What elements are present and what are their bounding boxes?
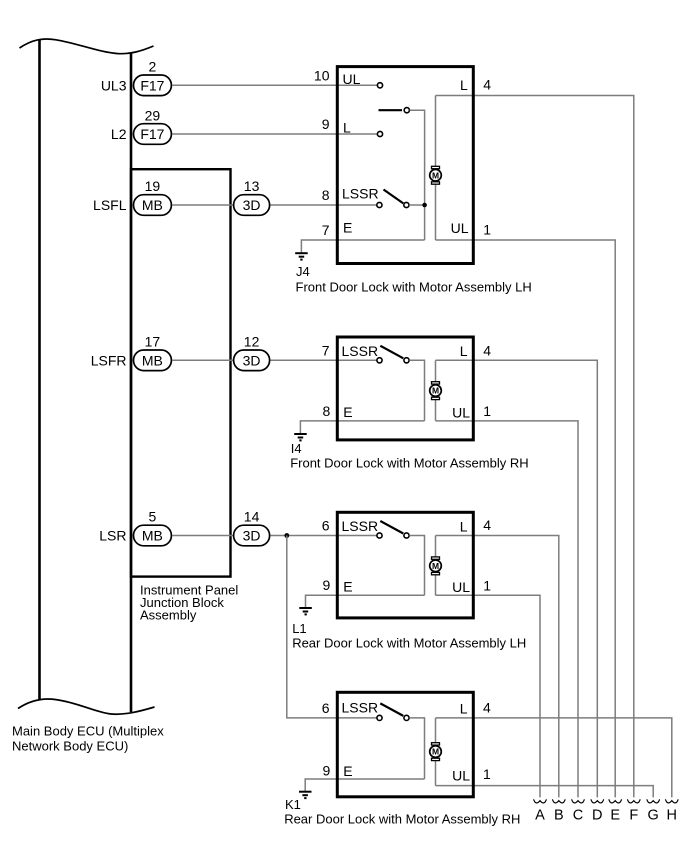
wire row2 <box>172 133 338 135</box>
svg-text:MB: MB <box>142 528 163 544</box>
J4 LSSR blade <box>384 190 404 204</box>
node junction dot LSR <box>284 533 289 538</box>
L1 ground symbol <box>299 608 312 614</box>
K1 motor branch vertical <box>435 718 437 786</box>
svg-text:D: D <box>592 807 602 823</box>
svg-text:UL: UL <box>452 579 470 595</box>
svg-text:M: M <box>432 561 439 571</box>
I4 ground symbol <box>294 434 307 440</box>
terminal A break <box>534 799 547 803</box>
svg-text:K1: K1 <box>285 797 301 812</box>
svg-text:M: M <box>432 170 439 180</box>
svg-text:UL: UL <box>451 220 469 236</box>
wire LSSR pivot to vertical <box>409 204 424 206</box>
I4 E wire <box>338 420 425 422</box>
svg-text:Rear Door Lock with Motor Asse: Rear Door Lock with Motor Assembly LH <box>292 635 526 650</box>
svg-text:E: E <box>343 763 352 779</box>
svg-text:L: L <box>460 77 468 93</box>
K1 L output wire to H <box>436 718 672 798</box>
svg-text:LSSR: LSSR <box>342 518 379 534</box>
J4 pin9 contact wire <box>338 133 377 135</box>
svg-text:6: 6 <box>322 517 330 533</box>
svg-text:9: 9 <box>323 577 331 593</box>
svg-text:Front Door Lock with Motor Ass: Front Door Lock with Motor Assembly RH <box>290 456 528 471</box>
svg-text:19: 19 <box>145 178 161 194</box>
svg-text:9: 9 <box>323 763 331 779</box>
K1 wire pivot to E <box>409 718 424 779</box>
svg-text:UL: UL <box>343 71 361 87</box>
svg-text:L: L <box>460 343 468 359</box>
junction dot on vertical <box>422 203 427 208</box>
svg-text:UL: UL <box>452 405 470 421</box>
I4 LSSR contact circle <box>377 358 382 363</box>
motor M4 (K1) <box>430 743 442 761</box>
svg-text:L2: L2 <box>111 126 127 142</box>
L1 LSSR pivot circle <box>404 533 409 538</box>
svg-text:10: 10 <box>314 67 330 83</box>
svg-text:J4: J4 <box>296 264 310 279</box>
svg-text:LSFR: LSFR <box>91 352 127 368</box>
connector MB (pin 19) <box>134 195 172 216</box>
motor M1 (J4) <box>430 166 442 184</box>
svg-text:LSSR: LSSR <box>342 343 379 359</box>
K1 ground wire <box>305 779 338 791</box>
J4 UL contact circle <box>377 83 382 88</box>
J4 ground symbol <box>295 253 308 259</box>
wire pivot to vertical <box>410 110 425 240</box>
svg-text:I4: I4 <box>291 441 302 456</box>
J4 pin10 contact wire <box>338 84 377 86</box>
terminal H break <box>665 799 678 803</box>
wire row3 MB to 3D <box>172 204 233 206</box>
svg-text:12: 12 <box>244 333 260 349</box>
svg-text:29: 29 <box>145 107 161 123</box>
svg-text:E: E <box>343 220 352 236</box>
I4 LSSR pivot circle <box>404 358 409 363</box>
svg-text:5: 5 <box>149 509 157 525</box>
J4 LSSR pivot circle <box>404 202 409 207</box>
svg-text:Main Body ECU (Multiplex: Main Body ECU (Multiplex <box>12 723 164 738</box>
L1 motor branch vertical <box>435 536 437 596</box>
svg-text:F17: F17 <box>140 126 164 142</box>
terminal F break <box>627 799 640 803</box>
wire row3 3D to J4 <box>271 204 339 206</box>
L1 ground wire <box>306 595 339 607</box>
svg-text:7: 7 <box>322 222 330 238</box>
svg-text:H: H <box>667 807 677 823</box>
wire junction down to K1 <box>287 536 377 718</box>
K1 UL output wire to G <box>436 786 654 798</box>
junction block box <box>131 169 231 576</box>
K1 LSSR pivot circle <box>404 715 409 720</box>
wire row1 <box>172 84 338 86</box>
svg-text:LSFL: LSFL <box>93 197 127 213</box>
svg-text:M: M <box>432 747 439 757</box>
svg-text:Network Body ECU): Network Body ECU) <box>12 738 128 753</box>
wire row5 3D to L1 <box>271 535 377 537</box>
svg-text:G: G <box>648 807 659 823</box>
svg-text:L: L <box>460 518 468 534</box>
motor M3 (L1) <box>430 557 442 575</box>
J4 box outline <box>337 67 473 264</box>
svg-text:E: E <box>343 579 352 595</box>
svg-text:3D: 3D <box>243 197 261 213</box>
J4 UL output wire to E <box>436 240 616 797</box>
svg-text:A: A <box>535 807 545 823</box>
connector 3D (pin 14) <box>234 525 270 546</box>
svg-text:14: 14 <box>244 509 260 525</box>
connector F17 (pin 2) <box>134 75 172 96</box>
wire row4 MB to 3D <box>172 359 233 361</box>
svg-text:1: 1 <box>483 577 491 593</box>
L1 wire pivot to E <box>409 536 424 596</box>
wire row5 MB to 3D <box>172 535 233 537</box>
svg-text:17: 17 <box>145 333 161 349</box>
svg-text:9: 9 <box>322 116 330 132</box>
svg-text:L: L <box>343 120 351 136</box>
svg-text:4: 4 <box>483 77 491 93</box>
J4 L contact circle <box>377 131 382 136</box>
I4 wire pivot to E <box>409 360 424 421</box>
terminal C break <box>572 799 585 803</box>
svg-text:8: 8 <box>323 403 331 419</box>
svg-text:4: 4 <box>483 517 491 533</box>
svg-text:6: 6 <box>322 700 330 716</box>
L1 UL output wire to A <box>436 595 541 797</box>
svg-text:13: 13 <box>244 178 260 194</box>
J4 switch pivot circle <box>404 108 409 113</box>
svg-text:1: 1 <box>483 403 491 419</box>
connector F17 (pin 29) <box>134 124 172 145</box>
J4 L output wire to F <box>436 96 634 798</box>
L1 LSSR blade <box>380 521 403 534</box>
L1 LSSR contact circle <box>377 533 382 538</box>
svg-text:F17: F17 <box>140 77 164 93</box>
svg-text:C: C <box>573 807 583 823</box>
I4 ground wire <box>300 421 338 433</box>
L1 box outline <box>337 512 473 618</box>
I4 box outline <box>337 337 473 440</box>
ECU right vertical line <box>130 54 133 713</box>
ECU top break squiggle <box>20 39 154 54</box>
terminal G break <box>647 799 660 803</box>
ECU left vertical line <box>38 40 41 700</box>
motor M2 (I4) <box>430 382 442 400</box>
L1 E wire <box>338 594 425 596</box>
connector 3D (pin 12) <box>234 350 270 371</box>
svg-text:UL: UL <box>452 767 470 783</box>
I4 LSSR blade <box>380 346 403 359</box>
svg-text:2: 2 <box>149 58 157 74</box>
J4 motor branch vertical <box>435 96 437 241</box>
svg-text:MB: MB <box>142 352 163 368</box>
svg-text:L: L <box>460 701 468 717</box>
K1 box outline <box>337 692 473 797</box>
svg-text:Rear Door Lock with Motor Asse: Rear Door Lock with Motor Assembly RH <box>284 811 520 826</box>
svg-text:3D: 3D <box>243 352 261 368</box>
svg-text:4: 4 <box>483 700 491 716</box>
wire row4 3D to I4 <box>271 359 339 361</box>
terminal D break <box>591 799 604 803</box>
I4 L output wire to D <box>436 360 598 797</box>
J4 door-lock switch blade (neutral) <box>379 109 403 111</box>
ECU bottom break squiggle <box>18 699 155 714</box>
svg-text:M: M <box>432 386 439 396</box>
I4 UL output wire to C <box>436 421 579 798</box>
svg-text:7: 7 <box>322 342 330 358</box>
J4 E wire <box>338 239 425 241</box>
svg-text:LSSR: LSSR <box>342 186 379 202</box>
svg-text:E: E <box>610 807 620 823</box>
connector MB (pin 17) <box>134 350 172 371</box>
J4 ground wire <box>301 240 338 252</box>
svg-text:4: 4 <box>483 342 491 358</box>
connector 3D (pin 13) <box>234 195 270 216</box>
L1 L output wire to B <box>436 536 559 798</box>
svg-text:F: F <box>629 807 638 823</box>
svg-text:8: 8 <box>322 187 330 203</box>
svg-text:UL3: UL3 <box>101 77 127 93</box>
K1 LSSR blade <box>380 703 403 716</box>
I4 pin7 wire inside <box>338 359 377 361</box>
K1 ground symbol <box>299 792 312 798</box>
terminal E break <box>609 799 622 803</box>
svg-text:Assembly: Assembly <box>140 607 197 622</box>
terminal B break <box>552 799 565 803</box>
svg-text:Front Door Lock with Motor Ass: Front Door Lock with Motor Assembly LH <box>296 279 532 294</box>
svg-text:MB: MB <box>142 197 163 213</box>
svg-text:3D: 3D <box>243 528 261 544</box>
svg-text:B: B <box>554 807 564 823</box>
svg-text:L1: L1 <box>292 621 306 636</box>
I4 motor branch vertical <box>435 360 437 421</box>
svg-text:1: 1 <box>483 766 491 782</box>
svg-text:LSR: LSR <box>99 528 126 544</box>
svg-text:1: 1 <box>483 222 491 238</box>
J4 LSSR contact circle <box>377 202 382 207</box>
K1 LSSR contact circle <box>377 715 382 720</box>
svg-text:LSSR: LSSR <box>342 699 379 715</box>
svg-text:E: E <box>343 404 352 420</box>
connector MB (pin 5) <box>134 525 172 546</box>
J4 LSSR switch wire pin8 <box>338 204 377 206</box>
K1 E wire <box>338 778 425 780</box>
